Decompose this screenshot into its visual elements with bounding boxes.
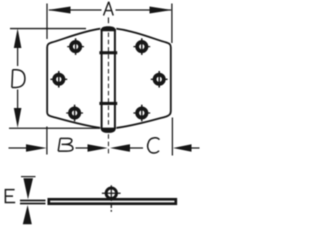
dim D extension line top	[10, 28, 86, 30]
dim D top arrow	[14, 28, 22, 48]
dim E top arrow (pointing down)	[23, 178, 33, 199]
dim E bottom arrow (pointing up)	[23, 205, 32, 224]
label A	[103, 0, 116, 17]
hinge right leaf outline	[116, 29, 171, 128]
dim A extension line right	[171, 4, 173, 44]
barrel top dome	[101, 26, 116, 31]
dim C left arrow (pointing left at centerline)	[110, 144, 130, 152]
dim B left extension line	[46, 127, 48, 155]
hinge left leaf outline	[47, 29, 100, 128]
dim A line	[49, 9, 171, 11]
label E	[5, 189, 15, 203]
dim C right arrow (outside, pointing left)	[173, 144, 192, 152]
screw hole H2 (left middle)	[50, 71, 67, 88]
screw hole H6 (right bottom)	[133, 105, 150, 122]
dim D extension line bottom	[9, 127, 100, 129]
dim D bottom arrow	[14, 108, 22, 128]
dim B left arrow (outside, pointing right)	[26, 144, 47, 152]
dim B line	[76, 147, 90, 149]
side view pin circle	[106, 188, 116, 198]
label B	[58, 138, 73, 151]
barrel right wall	[114, 29, 116, 129]
dim A extension line left	[46, 4, 48, 40]
screw hole H3 (left bottom)	[66, 105, 83, 122]
side view left plate bottom line	[20, 203, 46, 205]
side view pin crosshair	[102, 185, 121, 212]
side view left plate top line	[20, 200, 46, 202]
label D	[12, 70, 25, 88]
dim E top tick	[21, 176, 36, 178]
barrel bottom dome	[101, 128, 116, 133]
barrel left wall	[101, 29, 103, 129]
dim D line	[17, 47, 19, 111]
barrel knuckle divider 1	[99, 51, 117, 54]
screw hole H4 (right top)	[133, 38, 150, 55]
barrel knuckle divider 2	[99, 102, 117, 105]
dim B tail line	[9, 147, 27, 149]
screw hole H5 (right middle)	[151, 71, 168, 88]
dim C tail line	[191, 147, 200, 149]
screw hole H1 (left top)	[67, 38, 84, 55]
label C	[148, 138, 160, 153]
dim B right arrow (pointing right at centerline)	[88, 144, 108, 152]
side view main plate	[49, 199, 176, 203]
dim C line	[130, 147, 144, 149]
dim A right arrow	[150, 7, 173, 14]
barrel interior (white)	[100, 28, 116, 130]
dim A left arrow	[48, 7, 71, 14]
dim C right extension line	[171, 118, 173, 156]
pin centerline (dashed)	[107, 17, 109, 23]
